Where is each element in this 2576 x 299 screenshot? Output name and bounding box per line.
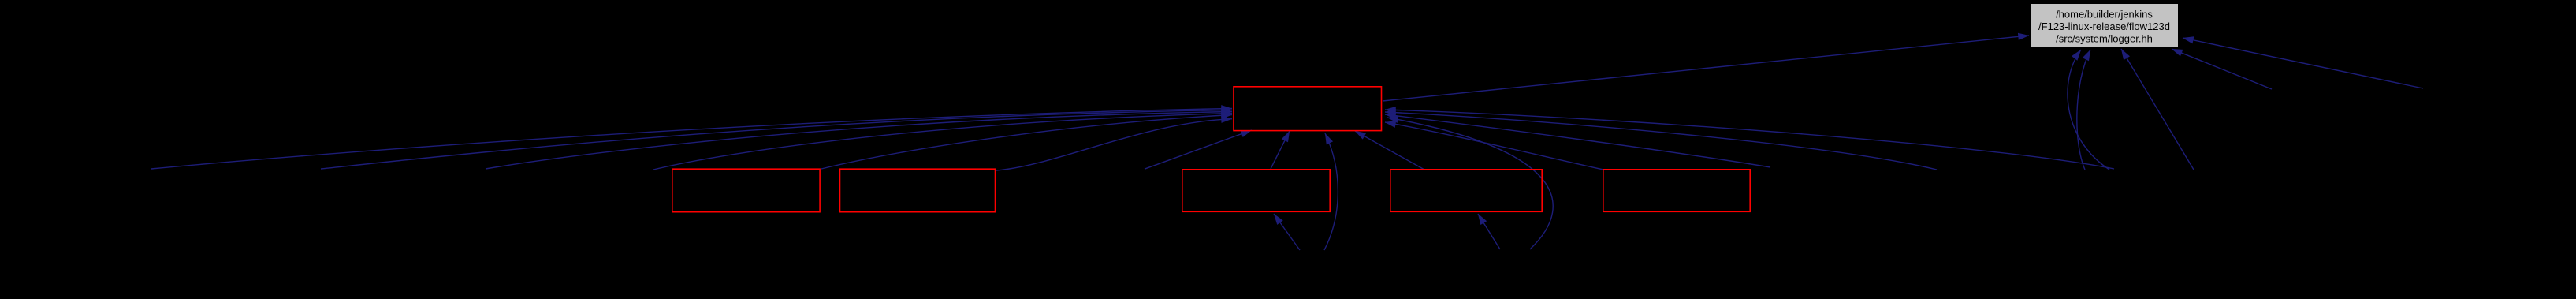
svg-text:/src/system/logger.hh: /src/system/logger.hh: [2056, 33, 2153, 45]
svg-text:/F123-linux-release/flow123d: /F123-linux-release/flow123d: [2038, 21, 2170, 32]
svg-text:/home/builder/jenkins: /home/builder/jenkins: [2056, 9, 2153, 21]
